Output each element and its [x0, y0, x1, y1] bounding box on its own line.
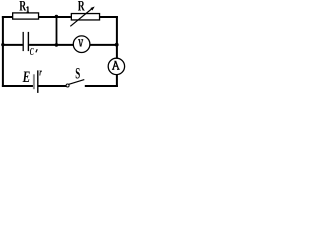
svg-text:r: r — [39, 66, 42, 78]
svg-text:S: S — [75, 64, 80, 83]
svg-text:R: R — [78, 0, 85, 14]
svg-text:C: C — [30, 47, 34, 58]
svg-text:E: E — [22, 68, 30, 85]
svg-text:R: R — [19, 0, 26, 14]
